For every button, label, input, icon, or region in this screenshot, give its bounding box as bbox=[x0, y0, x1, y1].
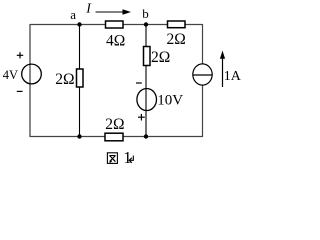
svg-text:10V: 10V bbox=[157, 93, 183, 109]
junction dot bottom left bbox=[77, 134, 81, 138]
wire right bbox=[202, 24, 204, 137]
polarity minus of 4V bbox=[17, 90, 23, 92]
polarity plus of 10V bbox=[138, 114, 145, 121]
svg-text:4Ω: 4Ω bbox=[106, 32, 125, 49]
junction dot bottom right bbox=[144, 134, 148, 138]
svg-text:a: a bbox=[70, 7, 76, 22]
wire top bbox=[30, 24, 203, 26]
node b dot bbox=[144, 22, 148, 26]
wire left bbox=[29, 24, 31, 137]
wire bottom bbox=[30, 136, 203, 138]
current source I1 bbox=[193, 64, 212, 85]
svg-text:2Ω: 2Ω bbox=[105, 116, 124, 133]
resistor R1 4ohm bbox=[106, 21, 124, 28]
svg-text:4V: 4V bbox=[3, 68, 18, 82]
svg-text:1: 1 bbox=[123, 148, 132, 167]
svg-text:2Ω: 2Ω bbox=[55, 71, 74, 88]
node a dot bbox=[77, 22, 81, 26]
polarity plus of 4V bbox=[17, 52, 23, 58]
current source bar bbox=[193, 74, 212, 76]
resistor R4 2ohm branch b bbox=[144, 47, 151, 66]
caption glyph tu (CJK) bbox=[107, 153, 117, 164]
caption return mark bbox=[129, 156, 133, 163]
polarity minus of 10V bbox=[136, 82, 142, 84]
wire branch b vertical bbox=[145, 25, 147, 137]
svg-text:2Ω: 2Ω bbox=[151, 49, 170, 66]
voltage source V1 4V bbox=[22, 64, 42, 84]
arrow 1A bbox=[222, 54, 224, 87]
svg-text:b: b bbox=[142, 6, 149, 21]
svg-text:2Ω: 2Ω bbox=[167, 31, 186, 48]
resistor R5 2ohm bottom bbox=[105, 133, 123, 141]
current arrow I bbox=[96, 11, 128, 13]
svg-text:1A: 1A bbox=[224, 69, 242, 84]
resistor R3 2ohm branch a bbox=[77, 69, 84, 87]
voltage source V2 10V bbox=[137, 89, 157, 111]
wire branch a vertical bbox=[79, 25, 81, 137]
svg-text:I: I bbox=[85, 1, 92, 16]
resistor R2 2ohm top right bbox=[168, 21, 186, 28]
